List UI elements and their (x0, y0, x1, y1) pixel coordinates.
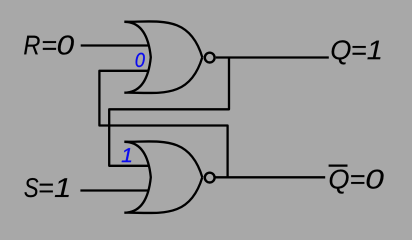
bubble of U2 (205, 173, 215, 183)
wire feedback Q-bar to U1 input (into gate, left, down, right, down to node Qbar junction) (99, 71, 227, 178)
wire feedback Q to U2 input (node Q junction, down, left, down, into gate) (109, 58, 229, 166)
wire S input to gate U2 (80, 189, 148, 191)
wire Q-bar output (U2 bubble to Q-bar label) (215, 176, 325, 178)
label S=1 (24, 178, 68, 197)
overline of Q-bar (329, 165, 348, 167)
wire R input to gate U1 (81, 44, 149, 46)
label Q=1 (332, 40, 381, 64)
bubble of U1 (205, 53, 215, 63)
label R=0 (24, 35, 74, 54)
wire Q output (U1 bubble to Q label) (216, 56, 329, 58)
node value 0 (blue, at U1 lower input) (136, 53, 145, 67)
node value 1 (blue, at U2 upper input) (122, 148, 131, 162)
NOR gate U1 (top) (124, 21, 214, 93)
label Q-bar=0 (330, 170, 384, 194)
NOR gate U2 (bottom) (124, 141, 214, 213)
